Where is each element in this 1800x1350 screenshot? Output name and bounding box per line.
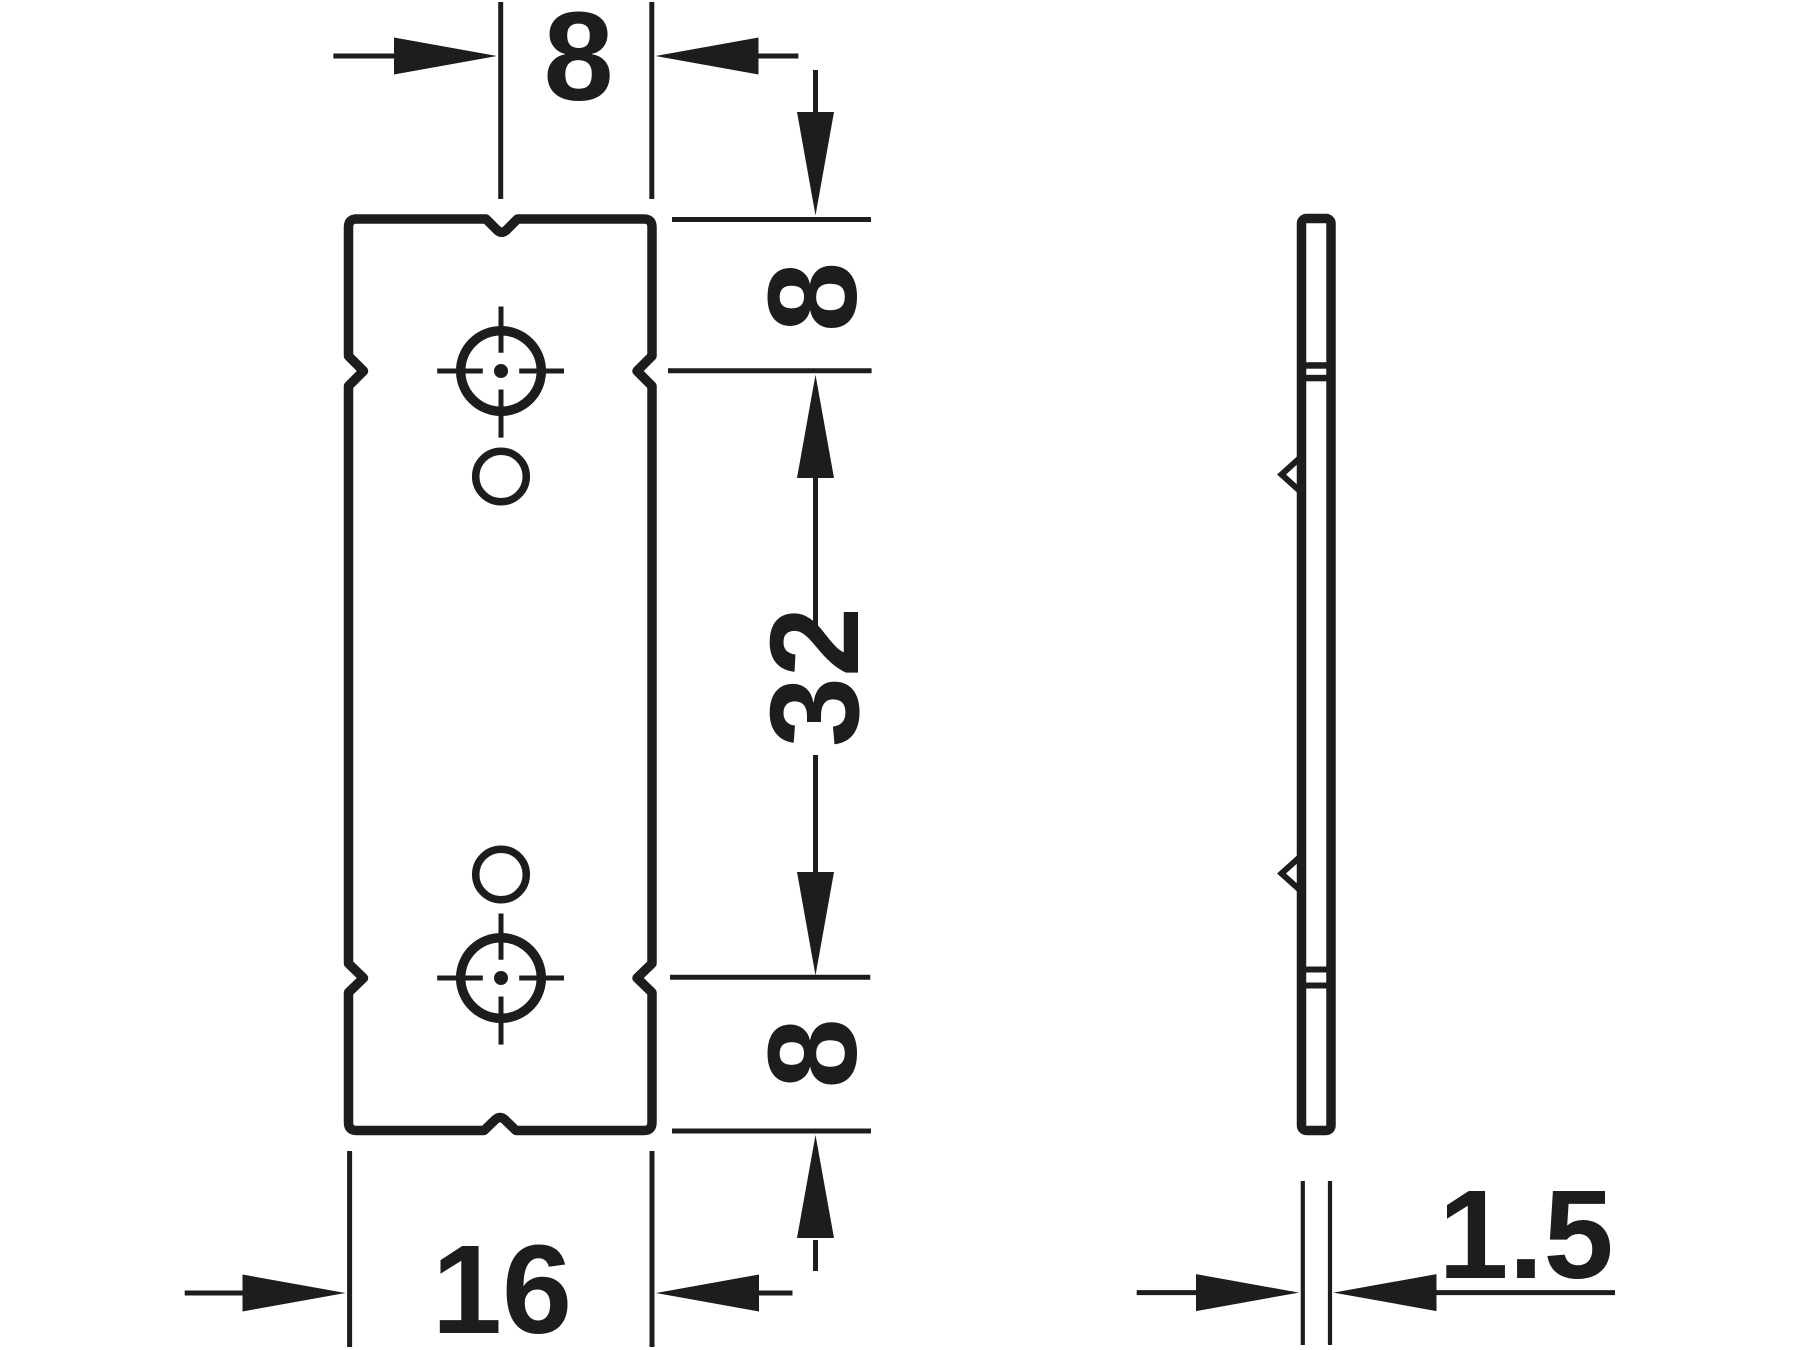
arrow A1 down toward top edge line bbox=[797, 70, 834, 216]
top dim arrow right bbox=[656, 38, 799, 75]
thickness dim arrow left bbox=[1137, 1274, 1299, 1311]
thickness dim 1.5 extension line left bbox=[1301, 1181, 1305, 1345]
svg-text:32: 32 bbox=[744, 607, 885, 747]
hole 2 centerline bbox=[437, 914, 564, 1045]
svg-text:8: 8 bbox=[742, 262, 883, 332]
bottom dim arrow right bbox=[656, 1275, 793, 1312]
svg-text:8: 8 bbox=[742, 1018, 883, 1088]
top dim "8" extension line right (plate right edge) bbox=[649, 2, 654, 199]
small hole 2 (lower small circle) bbox=[476, 849, 527, 900]
arrow A3 down toward hole2 CL line bbox=[797, 755, 834, 976]
thickness dim arrow right bbox=[1334, 1274, 1616, 1311]
right dim extension line y=370.7 (hole1 CL) bbox=[668, 368, 872, 373]
hole 2 (lower large hole) bbox=[461, 938, 542, 1019]
hole 1 (upper large hole) bbox=[461, 331, 542, 412]
right dim extension line y=1131 (bottom edge) bbox=[672, 1129, 871, 1134]
top dim "8" extension line left (plate centre) bbox=[498, 2, 503, 199]
side view dimple upper (points left) bbox=[1282, 457, 1302, 493]
side view plate outline bbox=[1302, 219, 1332, 1131]
top dim arrow left bbox=[333, 38, 497, 75]
svg-text:16: 16 bbox=[432, 1219, 572, 1350]
right dim extension line y=219.5 (top edge) bbox=[672, 217, 871, 222]
bottom dim 16 extension line right bbox=[650, 1151, 655, 1347]
bottom dim arrow left bbox=[185, 1275, 346, 1312]
thickness dim 1.5 extension line right bbox=[1328, 1181, 1332, 1345]
side view hole1 edge bars bbox=[1305, 362, 1327, 369]
side view dimple lower (points left) bbox=[1282, 856, 1302, 892]
svg-text:1.5: 1.5 bbox=[1438, 1164, 1613, 1305]
small hole 1 (upper small circle) bbox=[476, 451, 527, 502]
side view hole2 edge bars bbox=[1305, 967, 1327, 973]
plate front view outline with edge notches bbox=[349, 219, 653, 1131]
arrow A2 up toward hole1 CL line bbox=[797, 375, 834, 626]
bottom dim 16 extension line left bbox=[347, 1151, 352, 1347]
hole 1 centerline vertical bbox=[437, 307, 564, 438]
right dim extension line y=977.3 (hole2 CL) bbox=[670, 975, 870, 980]
arrow A4 up toward bottom edge line bbox=[797, 1135, 834, 1271]
svg-text:8: 8 bbox=[544, 0, 614, 127]
